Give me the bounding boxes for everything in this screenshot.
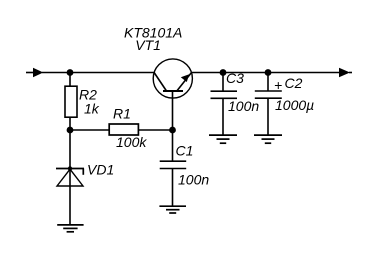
output arrow (339, 68, 350, 77)
wire top-right segment (192, 72, 341, 74)
ground below C2 (254, 135, 282, 143)
svg-text:C3: C3 (226, 70, 244, 86)
input arrow (33, 68, 43, 77)
capacitor C1 (160, 161, 187, 168)
wire VD1 lead (69, 130, 71, 225)
node junction C3 (220, 69, 227, 76)
wire output stub (349, 72, 352, 74)
wire C1 top lead (172, 130, 174, 161)
wire input stub (26, 72, 34, 74)
capacitor C2 (electrolytic) (255, 91, 282, 98)
wire C1 bottom lead (172, 169, 174, 207)
wire to R1 (70, 129, 110, 131)
resistor R2 (65, 86, 77, 117)
svg-text:100k: 100k (116, 134, 147, 150)
capacitor C3 (211, 91, 238, 98)
wire R1 to base node (138, 129, 172, 131)
svg-text:1k: 1k (84, 101, 100, 117)
svg-text:100n: 100n (228, 98, 259, 114)
svg-text:VT1: VT1 (135, 37, 161, 53)
ground below C1 (159, 206, 186, 213)
svg-text:R1: R1 (113, 106, 131, 122)
node junction base/R1/C1 (169, 127, 176, 134)
node junction C2 (265, 69, 272, 76)
node junction R2 top (67, 69, 74, 76)
wire R2 bottom lead (69, 117, 71, 130)
svg-text:100n: 100n (178, 172, 209, 188)
wire top-left segment (42, 72, 154, 74)
svg-text:+: + (274, 77, 282, 93)
zener diode VD1 (56, 166, 84, 186)
ground below C3 (209, 135, 237, 143)
ground below VD1 (57, 225, 83, 232)
svg-text:1000µ: 1000µ (275, 97, 314, 113)
transistor VT1 (153, 59, 192, 130)
node junction R2/R1/VD1 (67, 127, 74, 134)
wire C3 top lead (222, 73, 224, 92)
wire C3 bottom lead (222, 98, 224, 135)
wire C2 bottom lead (267, 98, 269, 135)
wire R2 top lead (69, 73, 71, 87)
resistor R1 (109, 124, 138, 135)
svg-text:VD1: VD1 (87, 162, 114, 178)
wire C2 top lead (267, 73, 269, 92)
svg-text:C2: C2 (285, 75, 303, 91)
svg-text:C1: C1 (176, 143, 194, 159)
